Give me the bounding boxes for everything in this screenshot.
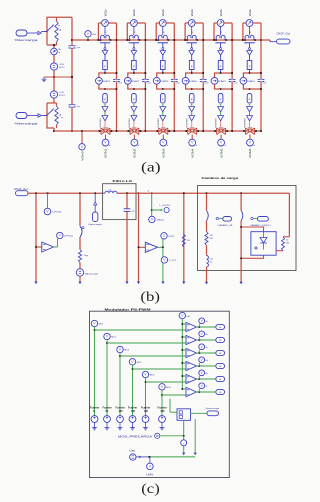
svg-text:VG1s: VG1s	[103, 9, 107, 17]
svg-text:VGN4: VGN4	[190, 148, 194, 158]
cell 4 buffer B4b	[189, 116, 195, 121]
cell 3 wire: sensor loop	[156, 22, 159, 24]
junction	[71, 39, 73, 41]
wire: RL leg	[183, 193, 185, 282]
cell 4 wire: capacitor loop	[186, 73, 204, 77]
svg-text:vfiltro: vfiltro	[156, 219, 165, 222]
resistor Rgc	[78, 250, 81, 263]
wire: carrier 5 feed	[145, 378, 147, 416]
subsystem block PRECARGA	[177, 409, 191, 421]
svg-text:MC2: MC2	[111, 337, 116, 339]
wire: CF leg	[126, 193, 128, 209]
cell 2 voltmeter VGN2	[133, 135, 135, 140]
voltmeter Vg6	[197, 391, 216, 393]
wire: left dc rail upper	[53, 45, 55, 103]
voltmeter Vg2	[197, 339, 216, 341]
voltmeter UAV	[149, 457, 151, 463]
svg-text:vPVtot: vPVtot	[64, 235, 74, 238]
svg-text:7m: 7m	[210, 262, 213, 264]
wire: mid tie	[44, 76, 72, 78]
svg-text:Cpr: Cpr	[77, 105, 81, 108]
cell 2 wire: sensor loop	[127, 22, 130, 24]
svg-text:KMFBN: KMFBN	[129, 118, 131, 127]
svg-text:Cpr: Cpr	[77, 46, 81, 49]
cell 2 ammeter IVG2	[131, 20, 138, 27]
junction	[128, 130, 130, 132]
cell 5 diode D5a	[220, 48, 222, 50]
svg-text:MC3: MC3	[124, 350, 129, 352]
cell 5 buffer B5a	[218, 107, 224, 112]
svg-text:ICAP2: ICAP2	[132, 80, 141, 83]
junction	[155, 39, 157, 41]
svg-text:Fcarrier: Fcarrier	[90, 406, 99, 409]
svg-text:CAMBIO_RL: CAMBIO_RL	[218, 224, 235, 227]
cell 6 buffer B6a	[247, 107, 253, 112]
arrow to ground bus	[34, 282, 37, 285]
svg-text:VG2s: VG2s	[132, 9, 136, 17]
cell 2 buffer B2a	[131, 107, 137, 112]
section (a) background	[0, 0, 1, 1]
voltmeter vM	[179, 312, 185, 318]
svg-text:ICAP5: ICAP5	[218, 80, 227, 83]
svg-text:ICAP3: ICAP3	[161, 80, 170, 83]
wire: carrier 1 feed	[94, 327, 96, 416]
cell 4 voltmeter VGN4	[191, 135, 193, 140]
cell 2 wire: sensor to switch	[133, 27, 135, 36]
svg-text:ICAP1: ICAP1	[103, 80, 112, 83]
svg-text:MOD_PRECARGA: MOD_PRECARGA	[118, 435, 153, 438]
svg-text:~: ~	[183, 441, 185, 445]
junction	[173, 72, 175, 74]
cell 6 capacitor C6	[258, 78, 265, 80]
cell 1 buffer B1b	[102, 116, 108, 121]
arrow to ground bus	[182, 282, 185, 285]
cell 4 diode D4a	[191, 48, 193, 50]
voltmeter vPVtot	[54, 246, 58, 248]
wire: inverter drop	[138, 193, 140, 282]
cell 6 voltmeter VGN6	[249, 135, 251, 140]
wire: bridge right	[288, 193, 290, 237]
comparator CMP2	[186, 335, 197, 344]
junction	[242, 39, 244, 41]
svg-text:Vc: Vc	[205, 347, 207, 349]
svg-text:_Cm: _Cm	[203, 82, 209, 84]
junction	[116, 72, 118, 74]
goto tag S4	[216, 363, 225, 368]
cell 3 gate block G3b	[161, 94, 166, 104]
svg-text:Filtro LC: Filtro LC	[113, 179, 134, 183]
cell 4 switch module Q4	[187, 35, 196, 40]
wire: cambios bus	[198, 192, 289, 194]
svg-text:Vprecarga: Vprecarga	[88, 223, 103, 226]
svg-text:Fcarrier: Fcarrier	[116, 406, 125, 409]
junction	[206, 192, 208, 194]
svg-text:VG4s: VG4s	[190, 9, 194, 17]
goto tag S5	[216, 376, 225, 381]
svg-text:V_OUT: V_OUT	[169, 260, 177, 262]
svg-text:240: 240	[144, 410, 149, 413]
meter block	[181, 440, 187, 446]
resistor Rpr1	[55, 21, 58, 42]
svg-text:VG6s: VG6s	[248, 9, 252, 17]
svg-text:MC4: MC4	[137, 362, 142, 364]
ground	[161, 422, 163, 425]
cell 3 wire: right leg	[173, 23, 175, 131]
cell 6 wire: sensor to switch	[249, 27, 251, 36]
voltmeter V_OUT	[161, 257, 167, 263]
cell 3 ammeter ICAP3	[153, 77, 160, 84]
cell 3 diode D3a	[162, 48, 164, 50]
goto L_FILTRO	[151, 193, 153, 216]
cell 6 switch module Q6	[245, 35, 254, 40]
svg-text:%tercarga: %tercarga	[15, 122, 39, 126]
cell 4 gate block G4a	[189, 61, 194, 70]
junction	[185, 130, 187, 132]
switch S_pr1	[44, 25, 54, 32]
svg-text:%tercarga: %tercarga	[15, 38, 39, 42]
cell 4 capacitor C4	[200, 78, 207, 80]
svg-text:F: F	[162, 98, 164, 102]
svg-text:_Cm: _Cm	[175, 82, 181, 84]
cell 2 gate block G2b	[132, 94, 137, 104]
svg-text:VGN1: VGN1	[104, 148, 108, 158]
arrow	[182, 453, 185, 456]
junction	[213, 39, 215, 41]
cell 1 wire: sensor to switch	[104, 27, 106, 36]
voltmeter VgN0	[81, 131, 83, 144]
cell 3 wire: capacitor loop	[157, 73, 175, 77]
cell 1 ammeter IVG1	[102, 20, 109, 27]
svg-text:(a): (a)	[141, 161, 161, 176]
cell 3 capacitor C3	[171, 78, 178, 80]
svg-text:L_FLTRO: L_FLTRO	[160, 205, 171, 207]
capacitor CF	[124, 208, 131, 210]
svg-text:UAV: UAV	[146, 473, 154, 476]
svg-text:Wprecarga: Wprecarga	[85, 273, 99, 276]
cell 5 gate block G5b	[218, 94, 223, 104]
cell 3 wire: sensor to switch	[162, 27, 164, 36]
wire: uav net	[194, 419, 196, 453]
wire: chain2	[240, 193, 242, 210]
cell 5 ammeter IVG5	[217, 20, 224, 27]
voltmeter MC6	[159, 384, 165, 390]
goto tag CAMBIO_DIODO	[251, 217, 253, 219]
cell 4 ammeter ICAP4	[182, 77, 189, 84]
voltmeter vfiltro	[149, 216, 155, 222]
svg-text:MC1: MC1	[99, 324, 104, 326]
arrow to ground bus	[125, 282, 128, 285]
cell 2 ammeter ICAP2	[124, 77, 131, 84]
svg-text:F: F	[104, 64, 106, 68]
svg-text:+135: +135	[59, 92, 65, 94]
diode bridge DB1	[251, 232, 276, 256]
cell 4 wire: sensor loop	[185, 22, 188, 24]
inductor L13	[206, 246, 208, 256]
svg-text:Cambios de carga: Cambios de carga	[202, 176, 239, 180]
svg-text:ICAP6: ICAP6	[247, 80, 256, 83]
cell 6 mosfet M6	[246, 128, 255, 135]
svg-text:VGN2: VGN2	[133, 148, 137, 158]
svg-text:VDC3: VDC3	[59, 95, 66, 97]
wire: PV bus	[28, 192, 103, 194]
wire: left drop	[35, 193, 37, 282]
junction vf	[151, 192, 153, 194]
svg-text:KMFBN: KMFBN	[187, 118, 189, 127]
junction	[260, 72, 262, 74]
amp block DCAC	[36, 246, 42, 248]
goto tag Mtercarga	[16, 30, 27, 36]
ground	[94, 422, 96, 425]
junction	[145, 72, 147, 74]
wire: bottom dc bus	[54, 130, 261, 132]
svg-text:Vref: Vref	[92, 33, 96, 36]
svg-text:ICAP4: ICAP4	[189, 80, 198, 83]
svg-text:_Cm: _Cm	[232, 82, 238, 84]
cell 3 buffer B3a	[160, 107, 166, 112]
cell 2 gate block G2a	[132, 61, 137, 70]
cell 6 gate block G6b	[247, 94, 252, 104]
comparator CMP3	[186, 348, 197, 357]
svg-text:_Cm: _Cm	[261, 82, 267, 84]
voltmeter Vg1	[197, 326, 216, 328]
svg-text:KMFBN: KMFBN	[100, 118, 102, 127]
cell 6 gate block G6a	[247, 61, 252, 70]
cell 1 wire: right leg	[116, 23, 118, 131]
cell 5 mosfet M5	[217, 128, 226, 135]
wire: precharge resistor loop top	[47, 17, 72, 45]
source Wprecarga	[76, 269, 83, 276]
arrow to ground bus	[161, 282, 164, 285]
cell 3 gate block G3a	[161, 61, 166, 70]
svg-text:VGN0: VGN0	[80, 151, 84, 161]
cell 4 wire: sensor to switch	[191, 27, 193, 36]
cell 5 voltmeter VGN5	[220, 135, 222, 140]
wire: precharge branch	[79, 193, 81, 226]
svg-text:Fcarrier: Fcarrier	[128, 406, 137, 409]
svg-text:IOUT: IOUT	[168, 236, 175, 238]
ground	[132, 422, 134, 425]
cell 2 mosfet M2	[130, 128, 139, 135]
voltage source VDC3 +135V	[50, 91, 57, 98]
cell 4 mosfet M4	[188, 128, 197, 135]
wire: precarga drop	[183, 420, 185, 439]
wire: bridge taps	[241, 227, 263, 232]
cell 1 ammeter ICAP1	[96, 77, 103, 84]
cell 5 buffer B5b	[218, 116, 224, 121]
wire: right precharge rail	[71, 17, 73, 131]
cell 1 voltmeter VGN1	[105, 135, 107, 140]
svg-text:VGN3: VGN3	[162, 148, 166, 158]
svg-text:180: 180	[131, 410, 136, 413]
switch CAMBIO_RL sw	[207, 211, 209, 221]
svg-text:F: F	[220, 64, 222, 68]
ground	[119, 422, 121, 425]
wire: top dc bus	[72, 39, 261, 41]
wire: carrier 3 feed	[119, 353, 121, 416]
arrow to ground bus	[239, 282, 242, 285]
junction	[214, 130, 216, 132]
cell 5 gate block G5a	[218, 61, 223, 70]
ground	[43, 77, 45, 79]
ammeter IA0	[51, 48, 58, 55]
cell 3 voltmeter VGN3	[162, 135, 164, 140]
voltmeter MC4	[129, 359, 135, 365]
svg-text:120: 120	[119, 410, 124, 413]
voltmeter MC2	[104, 333, 110, 339]
svg-text:VG3s: VG3s	[161, 9, 165, 17]
wire: carrier 2 feed	[106, 340, 108, 416]
goto tag S1	[216, 324, 225, 329]
capacitor Cpr2	[69, 104, 76, 106]
svg-text:KMFBN: KMFBN	[158, 118, 160, 127]
cell 6 buffer B6b	[247, 116, 253, 121]
wire: carrier 6 feed	[161, 390, 163, 415]
voltmeter Vg4	[197, 365, 216, 367]
voltmeter Vg5	[197, 378, 216, 380]
wire: carrier 4 feed	[132, 365, 134, 415]
cell 4 buffer B4a	[189, 107, 195, 112]
svg-text:F: F	[162, 64, 164, 68]
cell 1 capacitor C1	[113, 78, 120, 80]
junction	[99, 130, 101, 132]
voltmeter Vref	[85, 31, 91, 37]
svg-text:_Cm: _Cm	[117, 82, 123, 84]
resistor R 100 OhL	[205, 232, 208, 246]
cell 3 switch module Q3	[158, 35, 167, 40]
box Cambios de carga	[198, 186, 297, 271]
svg-text:dc: dc	[59, 52, 61, 54]
svg-text:F: F	[133, 98, 135, 102]
svg-text:OKCF_Out: OKCF_Out	[277, 33, 291, 36]
resistor Rpr2	[55, 106, 58, 125]
arrow to ground bus	[137, 282, 140, 285]
voltmeter MC3	[117, 346, 123, 352]
cell 5 wire: sensor to switch	[220, 27, 222, 36]
cell 1 diode D1a	[104, 48, 106, 50]
wire: chain1	[206, 193, 208, 210]
box Filtro LC	[103, 184, 136, 220]
cell 2 wire: capacitor loop	[128, 73, 146, 77]
arrow to ground bus	[78, 282, 81, 285]
voltage source VDC1 +135V	[50, 63, 57, 70]
svg-text:F: F	[249, 64, 251, 68]
cell 6 ammeter ICAP6	[240, 77, 247, 84]
cell 6 wire: capacitor loop	[243, 73, 261, 77]
goto tag S2	[216, 337, 225, 342]
arrow	[194, 453, 197, 456]
cell 5 capacitor C5	[229, 78, 236, 80]
cell 6 ammeter IVG6	[246, 20, 253, 27]
cell 2 wire: right leg	[144, 23, 146, 131]
wire: load bus	[136, 192, 198, 194]
resistor R 40 OhL	[282, 237, 285, 251]
voltmeter Vg3	[197, 352, 216, 354]
arrow to ground bus	[205, 282, 208, 285]
svg-text:I_PVtot: I_PVtot	[51, 211, 62, 214]
cell 5 ammeter ICAP5	[211, 77, 218, 84]
junction	[53, 44, 55, 46]
svg-text:MC5: MC5	[150, 375, 155, 377]
svg-text:VGN5: VGN5	[219, 148, 223, 158]
amp DC_AC out	[139, 246, 146, 248]
cell 1 buffer B1a	[102, 107, 108, 112]
goto tag CAMBIO_RL	[216, 217, 218, 219]
switch CAMBIO_DIODO sw	[241, 211, 243, 221]
junction	[126, 192, 128, 194]
svg-text:F: F	[133, 64, 135, 68]
cell 2 diode D2a	[133, 48, 135, 50]
ground	[106, 422, 108, 425]
svg-text:F: F	[220, 98, 222, 102]
svg-text:KMFBN: KMFBN	[216, 118, 218, 127]
cell 6 diode D6a	[249, 48, 251, 50]
comparator CMP4	[186, 361, 197, 370]
svg-text:300: 300	[161, 410, 166, 413]
junction	[202, 72, 204, 74]
svg-text:+135: +135	[59, 64, 65, 66]
svg-text:MC6: MC6	[166, 387, 171, 389]
resistor RL	[182, 234, 185, 247]
cell 1 mosfet M1	[101, 128, 110, 135]
junction	[156, 130, 158, 132]
capacitor Cpr1	[69, 45, 76, 47]
ammeter I_PVtot	[47, 193, 49, 208]
ground	[145, 422, 147, 425]
cell 5 wire: sensor loop	[214, 22, 217, 24]
junction	[184, 39, 186, 41]
cell 5 wire: right leg	[231, 23, 233, 131]
goto tag Vprecarga (b-left)	[94, 193, 96, 202]
voltmeter MC1	[91, 320, 97, 326]
svg-text:VGN6: VGN6	[248, 148, 252, 158]
cell 1 wire: capacitor loop	[99, 73, 117, 77]
svg-text:_Cm: _Cm	[146, 82, 152, 84]
comparator CMP1	[186, 322, 197, 331]
junction	[231, 72, 233, 74]
svg-text:KMFBN: KMFBN	[245, 118, 247, 127]
voltmeter MC5	[142, 371, 148, 377]
cell 2 switch module Q2	[130, 35, 139, 40]
svg-text:vM: vM	[187, 316, 190, 318]
svg-text:Fcarrier: Fcarrier	[103, 406, 112, 409]
junction	[243, 130, 245, 132]
svg-text:VDC1: VDC1	[59, 67, 66, 69]
comparator CMP6	[186, 387, 197, 396]
junction	[35, 192, 37, 194]
wire: precharge resistor loop bottom	[47, 103, 54, 128]
comparator CMP5	[186, 374, 197, 383]
box Modulador PS-PWM	[90, 311, 230, 477]
cell 1 gate block G1b	[103, 94, 108, 104]
svg-text:Fcarrier: Fcarrier	[141, 406, 150, 409]
svg-text:Vprecarga: Vprecarga	[205, 407, 220, 410]
cell 4 gate block G4b	[189, 94, 194, 104]
cell 1 gate block G1a	[103, 61, 108, 70]
junction	[126, 39, 128, 41]
cell 6 wire: sensor loop	[243, 22, 246, 24]
cell 3 ammeter IVG3	[159, 20, 166, 27]
cell 4 ammeter IVG4	[188, 20, 195, 27]
svg-text:R: R	[60, 29, 62, 32]
svg-text:F: F	[191, 64, 193, 68]
junction	[98, 39, 100, 41]
cell 5 wire: capacitor loop	[215, 73, 233, 77]
cell 5 switch module Q5	[216, 35, 225, 40]
junction	[149, 456, 151, 458]
cell 4 wire: right leg	[202, 23, 204, 131]
svg-text:VG5s: VG5s	[219, 9, 223, 17]
voltmeter VOUT	[158, 246, 163, 248]
